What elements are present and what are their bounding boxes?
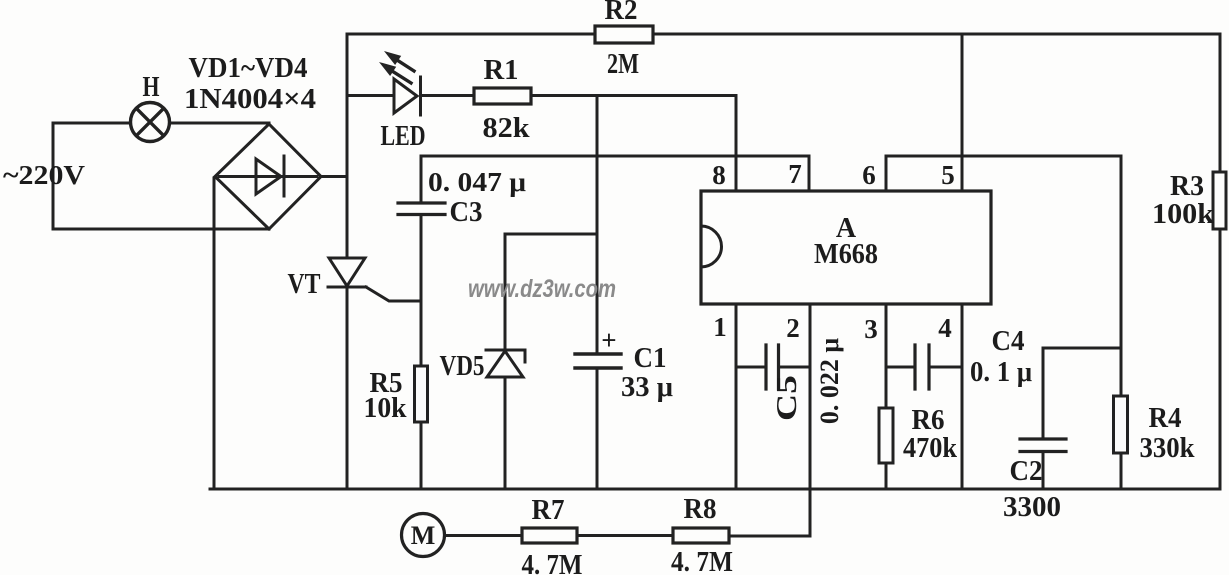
resistor R4 [1114,396,1128,453]
svg-text:10k: 10k [364,393,407,424]
zener VD5 [487,351,523,377]
svg-text:7: 7 [788,159,802,189]
svg-text:330k: 330k [1140,433,1195,464]
wire R1 node to C1 [596,96,599,355]
capacitor C5 plates [766,345,779,389]
svg-text:~220V: ~220V [3,160,86,190]
lamp H [131,103,170,142]
wire pin3 upper [885,304,888,408]
svg-text:C5: C5 [772,375,803,421]
svg-text:100k: 100k [1152,199,1214,230]
svg-text:4: 4 [938,313,952,343]
svg-text:VT: VT [288,269,321,300]
capacitor C4 wires [886,366,915,369]
svg-text:C3: C3 [450,197,483,228]
resistor R1 [474,88,531,104]
wire R7 to R8 [577,534,673,537]
wire C1 to rail [596,368,599,489]
svg-text:82k: 82k [483,113,530,144]
wire pin2 drop to R8 [729,304,810,536]
svg-text:C2: C2 [1010,456,1043,487]
bridge diode bar [283,156,286,196]
svg-text:33 μ: 33 μ [621,372,673,403]
capacitor C4 plates [915,345,929,389]
svg-text:M: M [411,521,436,550]
svg-text:C1: C1 [634,343,667,374]
IC notch [701,226,722,267]
svg-text:VD1~VD4: VD1~VD4 [189,53,308,84]
svg-text:4. 7M: 4. 7M [522,550,583,575]
svg-text:R6: R6 [912,405,945,436]
LED arrow 1 [397,60,414,71]
svg-text:4. 7M: 4. 7M [671,547,733,575]
wire bridge left vertex drop [213,178,216,489]
wire pin5 drop from rail [961,34,964,191]
svg-text:C4: C4 [992,326,1025,357]
resistor R2 [595,26,653,43]
wire pin6 net to R4 [886,156,1121,396]
svg-text:1N4004×4: 1N4004×4 [184,84,316,115]
wire top rail right segment [653,33,1220,36]
svg-text:8: 8 [712,160,726,190]
svg-text:VD5: VD5 [440,351,485,382]
wire bridge right to main vertical [321,175,347,178]
LED arrow 2 [392,71,411,83]
wire C3 pin7 net [421,156,809,203]
resistor R8 [673,528,729,543]
thyristor VT [329,258,365,286]
wire VT gate [366,287,421,301]
wire VD5 net [505,234,597,350]
IC U1 M668 box [701,191,991,304]
wire top rail left segment [347,33,595,36]
wire pin3 lower [885,463,888,489]
wire LED branch [347,94,394,97]
svg-text:0. 1 μ: 0. 1 μ [970,357,1032,388]
svg-text:R8: R8 [684,494,717,525]
svg-text:R1: R1 [484,55,519,86]
svg-text:1: 1 [713,312,727,342]
resistor R6 [879,408,893,463]
zener VD5 bar [486,350,525,362]
svg-text:3300: 3300 [1003,492,1061,523]
capacitor C5 wires [736,366,766,369]
svg-text:H: H [143,72,160,103]
wire C3 to R5 [420,215,423,367]
VT cathode bar [328,286,366,289]
wire mains loop left [53,123,269,229]
wire R4 to rail [1120,453,1123,489]
svg-text:R2: R2 [605,0,638,26]
LED triangle [394,79,417,113]
motor M [402,514,445,557]
lamp cross [137,109,164,136]
wire motor to R7 [445,534,522,537]
wire pin4 drop [961,304,964,489]
wire VD5 to rail [504,377,507,489]
bridge inner line [219,175,317,178]
wire right edge upper [1219,34,1222,172]
svg-text:R7: R7 [532,495,565,526]
svg-text:M668: M668 [814,239,878,270]
wire lamp to bridge [170,122,269,125]
svg-text:6: 6 [862,160,876,190]
capacitor C2 [1020,439,1066,452]
wire right edge lower [1219,229,1222,489]
capacitor C3 [398,203,445,215]
svg-text:0. 022 μ: 0. 022 μ [815,338,844,425]
wire bottom rail [210,488,1220,491]
resistor R7 [522,528,577,543]
svg-text:470k: 470k [903,433,957,464]
svg-text:5: 5 [941,160,955,190]
wire R1 to pin8 [531,94,736,97]
resistor R3 [1213,172,1226,229]
svg-text:+: + [601,325,616,355]
svg-text:2: 2 [786,313,800,343]
wire main left vertical upper [346,34,349,258]
svg-text:R3: R3 [1170,171,1204,202]
resistor R5 [415,366,428,422]
wire pin8 drop [735,96,738,192]
capacitor C1 [575,354,621,368]
svg-text:3: 3 [864,314,878,344]
wire LED to R1 [421,94,475,97]
LED cathode bar [419,77,422,115]
svg-text:2M: 2M [607,49,639,80]
svg-text:LED: LED [381,121,426,152]
svg-text:0. 047 μ: 0. 047 μ [428,167,526,197]
wire pin1 drop [735,304,738,489]
wire main left vertical lower [346,287,349,489]
svg-text:www.dz3w.com: www.dz3w.com [468,275,616,303]
svg-text:R4: R4 [1149,403,1182,434]
bridge rectifier VD1-VD4 diamond [215,124,321,229]
bridge diode triangle [256,159,281,194]
wire R5 to rail [420,422,423,489]
wire C2 branch [1043,348,1121,439]
wire C2 to rail [1042,452,1045,490]
